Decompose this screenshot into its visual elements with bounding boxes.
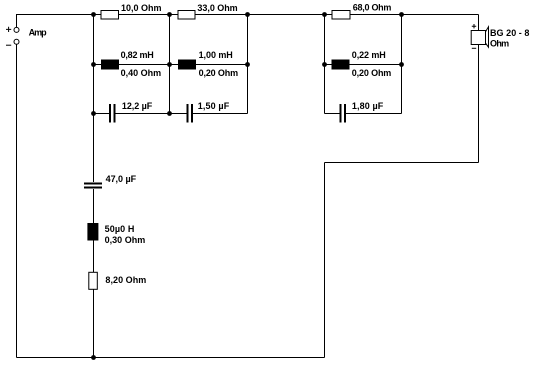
Amp - terminal circle bbox=[14, 39, 19, 44]
junction dot inductor row A bbox=[91, 62, 96, 67]
wire from Amp + terminal up and across the top bbox=[17, 15, 479, 28]
resistor R1 box bbox=[101, 11, 119, 20]
junction dot top rail D bbox=[322, 12, 327, 17]
resistor R3 box bbox=[332, 11, 350, 20]
resistor R2 box bbox=[178, 11, 195, 20]
speaker plus sign bbox=[472, 24, 476, 28]
junction dot capacitor row B bbox=[167, 111, 172, 116]
svg-text:0,40 Ohm: 0,40 Ohm bbox=[121, 68, 162, 78]
svg-text:1,00 mH: 1,00 mH bbox=[199, 50, 233, 60]
wire between C4 and L4 bbox=[93, 189, 95, 223]
svg-text:1,50 µF: 1,50 µF bbox=[198, 101, 230, 111]
svg-text:68,0 Ohm: 68,0 Ohm bbox=[353, 3, 392, 13]
svg-text:0,82 mH: 0,82 mH bbox=[121, 50, 154, 60]
junction dot inductor row D bbox=[322, 62, 327, 67]
wire inductor row block 1 bbox=[94, 64, 170, 66]
junction dot inductor row C bbox=[245, 62, 250, 67]
wire speaker rail down from top wire to speaker + bbox=[478, 15, 480, 31]
svg-text:0,20 Ohm: 0,20 Ohm bbox=[352, 68, 392, 78]
rail node C vertical x=247.5 bbox=[247, 15, 249, 114]
inductor L1 body bbox=[101, 60, 119, 70]
inductor L3 body bbox=[332, 60, 350, 70]
svg-text:1,80 µF: 1,80 µF bbox=[352, 101, 384, 111]
wire capacitor row block 3 right bbox=[346, 113, 402, 115]
svg-text:0,22 mH: 0,22 mH bbox=[352, 50, 386, 60]
wire lower return vertical bbox=[324, 163, 326, 358]
wire capacitor row block 2 left bbox=[170, 113, 187, 115]
wire from bottom return up to Amp - terminal bbox=[16, 44, 18, 357]
svg-text:Ohm: Ohm bbox=[490, 39, 509, 49]
capacitor C2 plates bbox=[188, 104, 193, 123]
wire bottom return horizontal bbox=[17, 357, 325, 359]
rail node A vertical x=93.5 top to capacitor row bbox=[93, 15, 95, 114]
Amp minus sign bbox=[6, 44, 11, 46]
junction dot top rail B bbox=[167, 12, 172, 17]
wire from speaker - down to lower return bbox=[478, 45, 480, 163]
junction dot capacitor row A bbox=[91, 111, 96, 116]
inductor L4 body bbox=[87, 223, 98, 241]
wire from R4 down to bottom return bbox=[93, 289, 95, 357]
wire capacitor row block 3 left bbox=[325, 113, 340, 115]
junction dot top rail C bbox=[245, 12, 250, 17]
wire capacitor row block 1 right bbox=[116, 113, 170, 115]
svg-text:Amp: Amp bbox=[29, 27, 47, 37]
wire between L4 and R4 bbox=[93, 241, 95, 273]
Amp + terminal circle bbox=[14, 27, 19, 32]
wire inductor row block 2 bbox=[170, 64, 248, 66]
capacitor C3 plates bbox=[341, 104, 346, 123]
svg-text:BG 20 - 8: BG 20 - 8 bbox=[490, 28, 529, 38]
wire series branch from capacitor row down to C4 bbox=[93, 114, 95, 183]
wire capacitor row block 2 right bbox=[193, 113, 248, 115]
junction dot inductor row B bbox=[167, 62, 172, 67]
resistor R4 box bbox=[89, 272, 98, 289]
speaker LS1 box bbox=[471, 31, 485, 45]
junction dot top rail A bbox=[91, 12, 96, 17]
inductor L2 body bbox=[178, 60, 196, 70]
capacitor C1 plates bbox=[110, 104, 115, 123]
rail node B vertical x=169.5 bbox=[169, 15, 171, 114]
svg-text:33,0 Ohm: 33,0 Ohm bbox=[197, 3, 237, 13]
svg-text:0,20 Ohm: 0,20 Ohm bbox=[199, 68, 239, 78]
svg-text:47,0 µF: 47,0 µF bbox=[106, 174, 137, 184]
wire capacitor row block 1 left bbox=[94, 113, 110, 115]
rail node E vertical x=401.5 bbox=[401, 15, 403, 114]
wire lower return horizontal bbox=[325, 162, 479, 164]
junction dot top rail E bbox=[399, 12, 404, 17]
junction dot bottom return bbox=[91, 355, 96, 360]
capacitor C4 plates bbox=[84, 184, 102, 188]
Amp plus sign bbox=[6, 27, 11, 32]
svg-text:8,20 Ohm: 8,20 Ohm bbox=[105, 275, 146, 285]
rail node D vertical x=325.5 bbox=[324, 15, 326, 114]
svg-text:50µ0 H: 50µ0 H bbox=[105, 224, 135, 234]
speaker LS1 cone bbox=[486, 27, 489, 47]
wire inductor row block 3 bbox=[325, 64, 402, 66]
svg-text:10,0 Ohm: 10,0 Ohm bbox=[121, 3, 162, 13]
junction dot inductor row E bbox=[399, 62, 404, 67]
speaker minus sign bbox=[472, 47, 476, 49]
svg-text:12,2 µF: 12,2 µF bbox=[122, 101, 153, 111]
svg-text:0,30 Ohm: 0,30 Ohm bbox=[105, 235, 146, 245]
